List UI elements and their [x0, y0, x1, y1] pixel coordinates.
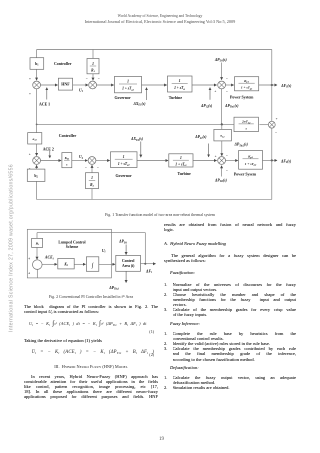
svg-text:HNF: HNF: [61, 82, 70, 87]
summing junction S8 (ACEi): [33, 260, 43, 270]
wire: governor 1 to turbine 1 with dXE1 tap: [142, 85, 167, 100]
svg-text:−: −: [226, 76, 228, 80]
sign - (bottom of S4): [275, 131, 277, 135]
svg-text:+: +: [28, 272, 31, 276]
wire: HNF to summing junction S2: [73, 84, 88, 86]
summing junction S7 (power balance area 2): [218, 157, 226, 165]
svg-text:−: −: [97, 166, 99, 170]
block governor 2 transfer function: [111, 152, 138, 168]
svg-text:Power Sysem: Power Sysem: [234, 172, 257, 176]
block power system 2 transfer function: [239, 151, 263, 170]
svg-text:∫: ∫: [91, 262, 94, 269]
wire: dPDi down into control area: [125, 245, 127, 255]
svg-text:ΔPTie,i: ΔPTie,i: [108, 286, 119, 291]
wire: b2 up into S5: [36, 165, 38, 169]
label dPDi: [118, 240, 127, 245]
block b2 (frequency bias area 2): [27, 169, 45, 181]
svg-text:ΔPD2(s): ΔPD2(s): [214, 178, 228, 183]
svg-text:Ui: Ui: [102, 249, 106, 254]
wire: S5 to KI2/s block with ACE2 tap arrow: [41, 151, 62, 161]
block tie-line 2piT12/s: [234, 117, 258, 131]
wire: tie line output to left (dP12): [36, 123, 234, 125]
svg-text:+: +: [276, 117, 278, 121]
svg-text:ΔP12(s): ΔP12(s): [200, 104, 213, 109]
block integrator: [86, 257, 98, 272]
wire: Bi down into S8: [36, 247, 38, 259]
label Controller area 2: [59, 134, 77, 138]
wire: dPD2 into S7 from bottom: [221, 166, 223, 177]
wire: S3 to power system 1: [226, 84, 234, 86]
svg-text:−: −: [226, 154, 228, 158]
wire: a12 left down into S5: [36, 144, 38, 156]
svg-text:+: +: [29, 153, 31, 157]
svg-text:−: −: [275, 131, 277, 135]
wire: S4 output into 2piT12/s block: [259, 124, 268, 126]
wire: tie dot down into a12 mid block: [221, 124, 223, 129]
label dPD1(s): [214, 58, 228, 63]
svg-text:ΔXE2(s): ΔXE2(s): [130, 137, 144, 142]
wire: S1 to HNF with ACE1 tap arrow: [41, 85, 58, 100]
svg-text:1: 1: [127, 80, 129, 84]
sign - (top right of S7): [226, 154, 228, 158]
left sidebar vertical text: [9, 162, 15, 333]
sign + (bottom input S1): [29, 92, 31, 96]
svg-text:1: 1: [179, 79, 181, 83]
block 1/R2 (droop area 2): [86, 173, 99, 189]
svg-text:1: 1: [92, 62, 94, 66]
svg-text:Area (i): Area (i): [122, 264, 135, 268]
wire: dF1 down into comparator S4: [271, 85, 273, 121]
block b1 (frequency bias area 1): [30, 58, 44, 70]
wire: dPD1 into S3 from top: [221, 63, 223, 80]
sign - (top right of S3): [226, 76, 228, 80]
block turbine 1 transfer function: [168, 76, 193, 92]
section heading III: [24, 364, 158, 369]
right column text: [164, 222, 296, 232]
label dP21(s): [194, 135, 207, 140]
block turbine 2 transfer function: [169, 154, 193, 167]
label Governor area 2: [116, 174, 132, 178]
svg-text:1: 1: [91, 176, 93, 180]
block Bi (frequency bias): [32, 238, 43, 247]
sign + (top input S8): [28, 257, 31, 261]
svg-text:ACEi: ACEi: [44, 256, 54, 261]
svg-text:−: −: [85, 166, 87, 170]
wire: drop from top line into b1: [36, 50, 38, 58]
left column text: [24, 304, 158, 314]
wire: S1 bottom to tie line: [36, 89, 38, 124]
label Ui: [102, 249, 106, 254]
label dF1(s): [280, 84, 292, 89]
block KI2/s (integral controller area 2): [62, 153, 72, 168]
svg-text:Turbine: Turbine: [169, 96, 183, 100]
sign + (top of S4): [276, 117, 278, 121]
label Lumped Control Scheme: [58, 241, 85, 249]
block governor 1 transfer function: [115, 76, 142, 92]
svg-text:U2: U2: [79, 155, 84, 160]
svg-text:−: −: [86, 77, 88, 81]
label dPTie2(s): [234, 143, 249, 148]
sign + (bottom left of S3): [214, 90, 216, 94]
wire: turbine 2 to summing junction S7 with dP21 tap: [193, 144, 217, 161]
label ACE 1: [39, 102, 50, 106]
svg-text:ΔP21(s): ΔP21(s): [194, 135, 207, 140]
svg-text:ΔF1(s): ΔF1(s): [280, 84, 292, 89]
wire: right vertical dF1 feedback to top line: [271, 50, 273, 86]
sign + (top input S1): [29, 77, 31, 81]
svg-text:ΔPTie1(s): ΔPTie1(s): [224, 104, 239, 109]
svg-text:+: +: [214, 90, 216, 94]
summing junction S2 (governor input area 1): [89, 81, 97, 89]
sign - (left top of S2): [86, 77, 88, 81]
sign - (bottom right of S6): [97, 166, 99, 170]
svg-text:ΔF2(s): ΔF2(s): [280, 159, 292, 164]
svg-text:Bi: Bi: [35, 242, 39, 247]
label dXE1(s): [133, 102, 147, 107]
wire: S2 to governor 1: [97, 84, 114, 86]
svg-text:Controller: Controller: [59, 134, 77, 138]
wire: bottom ACE2 feedback line: [37, 199, 272, 201]
label Power System area 1: [230, 95, 254, 99]
svg-text:Governor: Governor: [116, 174, 132, 178]
wire: bottom line up into 1/R2: [91, 189, 93, 200]
wire: left vertical tie into a12 left block: [36, 124, 38, 132]
section III paragraph: [24, 374, 158, 399]
page number: [159, 437, 164, 442]
svg-text:Scheme: Scheme: [66, 245, 79, 249]
label dPTie1(s): [224, 104, 239, 109]
block Ki (integral gain): [58, 258, 74, 269]
equation 2: [32, 350, 155, 355]
svg-text:Control: Control: [122, 259, 135, 263]
wire: governor 2 to turbine 2 with dXE2 tap: [137, 142, 168, 161]
wire: S8 to Ki: [42, 263, 57, 265]
controller block HNF (area 1): [58, 78, 72, 90]
Fig. 1 caption: [0, 212, 320, 217]
svg-text:Turbine: Turbine: [178, 172, 192, 176]
sign - (bottom left of S6): [85, 166, 87, 170]
sign + (top input S5): [29, 153, 31, 157]
label dPD2(s): [214, 178, 228, 183]
label ACE 2: [43, 147, 54, 151]
wire: S8 bottom to box edge: [36, 269, 38, 278]
sign - (bottom right of S3): [226, 90, 228, 94]
wire: feedback down into Bi: [36, 233, 38, 239]
sign + (bottom input S5): [29, 167, 31, 171]
block power system 1 transfer function: [235, 77, 259, 91]
svg-text:−: −: [98, 77, 100, 81]
wire: S4 bottom to dF2 tap: [271, 128, 273, 160]
label U1: [79, 88, 84, 93]
label dP12(s) lower: [200, 104, 213, 109]
wire: dPtie below control area: [125, 271, 127, 282]
svg-text:ΔFi: ΔFi: [145, 269, 152, 274]
wire: S7 to power system 2: [226, 160, 238, 162]
svg-text:Controller: Controller: [54, 62, 72, 66]
wire: power system 2 output to dF2 with feedback tap: [263, 159, 278, 161]
svg-text:−: −: [226, 169, 228, 173]
block Control Area (i): [116, 255, 141, 271]
summing junction S5 (ACE2): [33, 157, 41, 165]
svg-text:U1: U1: [79, 88, 84, 93]
block a12 left (tie gain into ACE2): [28, 133, 42, 144]
wire: feedback top line Fig 2: [37, 232, 145, 234]
wire: turbine 1 to summing junction S3 with dP12 tap: [192, 85, 217, 100]
block a12 (tie gain into area 2 power balance): [214, 129, 232, 141]
wire: S6 to governor 2: [96, 160, 110, 162]
svg-text:ΔPD1(s): ΔPD1(s): [214, 58, 228, 63]
wire: integrator to control area with Ui label: [99, 263, 115, 265]
wire: bottom line up into b2: [36, 181, 38, 199]
sign + (bottom input S8): [28, 272, 31, 276]
label Power System area 2: [234, 172, 257, 176]
wire: dF2 feedback down right side: [271, 160, 273, 199]
svg-text:ACE 1: ACE 1: [39, 102, 50, 106]
wire: b1 to summing junction S1: [36, 69, 38, 80]
svg-text:−: −: [226, 90, 228, 94]
summing junction S1 (ACE1): [33, 81, 41, 89]
label Turbine area 2: [178, 172, 192, 176]
svg-text:+: +: [29, 92, 31, 96]
wire: 1/R1 down into S2: [92, 74, 94, 80]
Fig. 2 caption: [24, 294, 158, 299]
svg-text:1: 1: [123, 155, 125, 159]
summing junction S4 (dF1 - dF2): [268, 121, 275, 128]
wire: dFi feedback up and left: [144, 233, 146, 264]
label dPtie i: [108, 286, 119, 291]
summing junction S3 (power balance area 1): [218, 81, 226, 89]
wire: KI2 to summing junction S6: [72, 160, 88, 162]
sign + (top left of S7): [215, 155, 217, 159]
svg-text:ACE 2: ACE 2: [43, 147, 54, 151]
label Governor area 1: [115, 96, 131, 100]
sign - (right top of S2): [98, 77, 100, 81]
svg-text:+: +: [29, 77, 31, 81]
wire: Ki to integrator: [74, 263, 85, 265]
wire: a12 mid down into S7: [221, 141, 223, 156]
wire: 1/R2 up into S6: [91, 165, 93, 172]
wire: top ACE1 feedback line: [37, 49, 272, 51]
svg-text:Governor: Governor: [115, 96, 131, 100]
summing junction S6 (governor input area 2): [88, 157, 96, 165]
lumped control scheme box (Fig 2): [27, 229, 111, 278]
svg-text:Power System: Power System: [230, 95, 254, 99]
label U2: [79, 155, 84, 160]
label dF2(s): [280, 159, 292, 164]
header line 1: [0, 14, 320, 18]
svg-text:ΔXE1(s): ΔXE1(s): [133, 102, 147, 107]
header line 2: [0, 20, 320, 24]
block 1/R1 (droop): [87, 59, 99, 74]
svg-text:+: +: [28, 257, 31, 261]
svg-text:ΔPTie2(s): ΔPTie2(s): [234, 143, 249, 148]
wire: control area output dFi with feedback tap: [141, 263, 156, 265]
label dFi: [145, 269, 152, 274]
equation 1: [29, 320, 147, 327]
svg-text:+: +: [215, 155, 217, 159]
label dXE2(s): [130, 137, 144, 142]
sign - (bottom right of S7): [226, 169, 228, 173]
taking derivative line: [24, 338, 158, 343]
wire: S3 down to tie junction: [221, 89, 223, 125]
svg-text:ΔPDi: ΔPDi: [118, 240, 127, 245]
label Controller area 1: [54, 62, 72, 66]
svg-text:1: 1: [180, 156, 182, 160]
wire: power system 1 output to dF1 with feedback tap: [259, 84, 277, 86]
label ACEi: [44, 256, 54, 261]
wire: top line into 1/R1: [92, 50, 94, 59]
label Turbine area 1: [169, 96, 183, 100]
